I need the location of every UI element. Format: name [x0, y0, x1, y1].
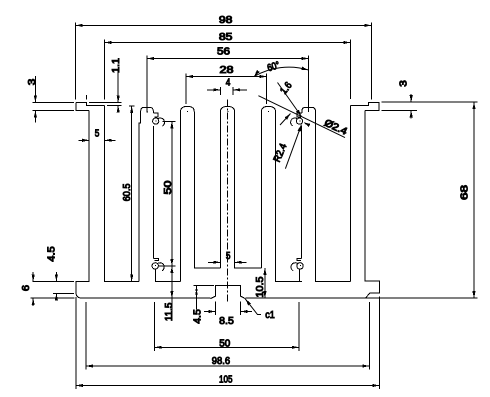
dim 28 line: [186, 65, 267, 78]
svg-text:98: 98: [219, 15, 233, 26]
dim 4 extension stubs: [220, 87, 233, 95]
svg-text:68: 68: [460, 184, 471, 200]
fin F5 left edge: [301, 126, 303, 258]
svg-text:11.5: 11.5: [164, 302, 175, 321]
dim 3 left extension lines: [33, 102, 75, 110]
dim 5 mid: lines and arrows: [208, 251, 247, 264]
dim 1.1: lines and arrows: [111, 58, 122, 113]
svg-text:5: 5: [226, 251, 231, 262]
svg-text:85: 85: [219, 32, 233, 43]
dim 105 extension lines: [76, 297, 380, 390]
fin F1 top curl nub: [153, 113, 158, 117]
svg-text:56: 56: [217, 47, 231, 58]
fin F1 bottom curl circle: [152, 263, 158, 269]
dim 56 extension lines: [147, 56, 309, 113]
profile: right wall inner edge: [350, 105, 352, 281]
fin F5 lower left edge to floor: [299, 269, 301, 281]
center fin centerline dashed: [227, 100, 229, 303]
svg-text:6: 6: [21, 284, 32, 291]
dim 28 extension lines: [186, 74, 267, 104]
fin F2: [181, 106, 221, 281]
base bottom edge left of channel: [81, 297, 211, 299]
svg-text:3: 3: [398, 80, 409, 87]
fin F5 top curl nub: [297, 113, 302, 117]
fin F5 cap and right edge: [302, 107, 351, 281]
screw channel left wall and chamfer c1: [211, 286, 246, 299]
svg-text:28: 28: [220, 65, 235, 76]
dim 50 left: line and arrows: [163, 121, 174, 266]
fin F1 bottom curl hook arc: [158, 263, 164, 271]
dim 8.5 extension lines: [216, 302, 241, 315]
svg-text:60.5: 60.5: [122, 183, 133, 201]
dim 98 line: [76, 15, 372, 27]
fin F1 cap and left edge: [139, 107, 154, 281]
svg-text:4: 4: [226, 77, 231, 88]
center fin F3: [220, 106, 261, 268]
dim 50 bottom: line and arrows: [155, 339, 299, 350]
svg-text:4.5: 4.5: [46, 246, 57, 262]
dim 4.5 left: line and arrows: [46, 246, 58, 301]
dim 98.6: line and arrows: [86, 356, 370, 368]
dim 68: line and arrows: [460, 102, 476, 298]
bottom edge extension line right: [366, 297, 478, 299]
profile: left wall outer edge: [76, 111, 89, 299]
dim 85 line: [105, 32, 351, 44]
dim 4 lines and arrows: [207, 77, 247, 91]
fin F4: [261, 106, 302, 281]
fin F1 bottom curl nub: [154, 258, 159, 260]
dim 5 left wall: lines and arrows: [79, 129, 116, 142]
fin F1 lower right edge to floor: [156, 269, 181, 281]
svg-text:3: 3: [27, 78, 38, 85]
fin F5 bottom curl circle: [297, 263, 303, 269]
dim 4.5 left extension: [53, 293, 74, 295]
base bottom edge right of channel: [245, 297, 365, 299]
fin F5 bottom curl nub: [297, 258, 302, 260]
fin F1 right edge: [153, 126, 155, 258]
bottom edge extension line left: [30, 297, 74, 299]
dim 3 right: lines and arrows: [398, 80, 413, 119]
svg-text:10.5: 10.5: [255, 276, 266, 297]
dim 105: line and arrows: [76, 374, 380, 387]
leader c1: [245, 299, 275, 321]
svg-text:c1: c1: [265, 310, 275, 321]
svg-text:1.1: 1.1: [111, 58, 122, 73]
dim 50 bottom extension lines: [155, 302, 299, 351]
svg-text:105: 105: [219, 374, 233, 385]
floor extension line left: [33, 280, 75, 282]
right lip extension lines: [382, 102, 478, 110]
svg-text:4.5: 4.5: [192, 309, 203, 324]
leader dia 2.4: [258, 96, 349, 138]
fin F5 bottom curl hook arc: [291, 263, 297, 271]
dim 85 extension lines: [105, 40, 351, 100]
dim 98 extension lines: [76, 23, 372, 100]
dim 4.5 mid: line and arrows: [192, 286, 203, 324]
profile: left top lip with rib: [76, 102, 104, 110]
dim 3 left: lines and arrows: [27, 76, 38, 122]
profile: right wall outer edge and foot: [365, 111, 380, 299]
dim 1.6 leader lines: [278, 80, 302, 125]
dim 98.6 extension lines: [86, 302, 370, 370]
stub extension above left rib: [86, 95, 88, 100]
dim 60.5: line and arrows: [122, 106, 133, 281]
fin F5 top curl hook arc: [291, 118, 297, 126]
svg-text:50: 50: [219, 339, 230, 350]
svg-text:5: 5: [95, 129, 100, 140]
fin F1 top curl hook arc: [158, 118, 164, 126]
dim 1.1 extension lines: [89, 102, 122, 105]
leader R2.4: [272, 125, 302, 169]
profile: right top lip with rib: [351, 102, 380, 110]
svg-text:8.5: 8.5: [219, 316, 234, 327]
svg-text:98.6: 98.6: [212, 356, 231, 367]
dim 4.5 mid extension: [194, 285, 215, 287]
dim 11.5: line and arrows: [164, 266, 175, 321]
fin F5 top curl circle: [296, 118, 302, 124]
dim 50 extension lines: [159, 121, 176, 266]
fin F1 top curl circle: [153, 118, 159, 124]
dim 56 line: [147, 47, 309, 61]
profile: left wall inner edge: [105, 105, 139, 281]
dim 60.5 top extension: [129, 105, 135, 107]
svg-text:50: 50: [163, 180, 174, 195]
dim 6: line and arrows: [21, 272, 35, 306]
angular dim 60 deg arc: [254, 60, 309, 77]
dim 10.5: line and arrows: [255, 268, 267, 298]
dim 8.5: lines and arrows: [204, 310, 252, 327]
center mark dots: [147, 111, 309, 265]
